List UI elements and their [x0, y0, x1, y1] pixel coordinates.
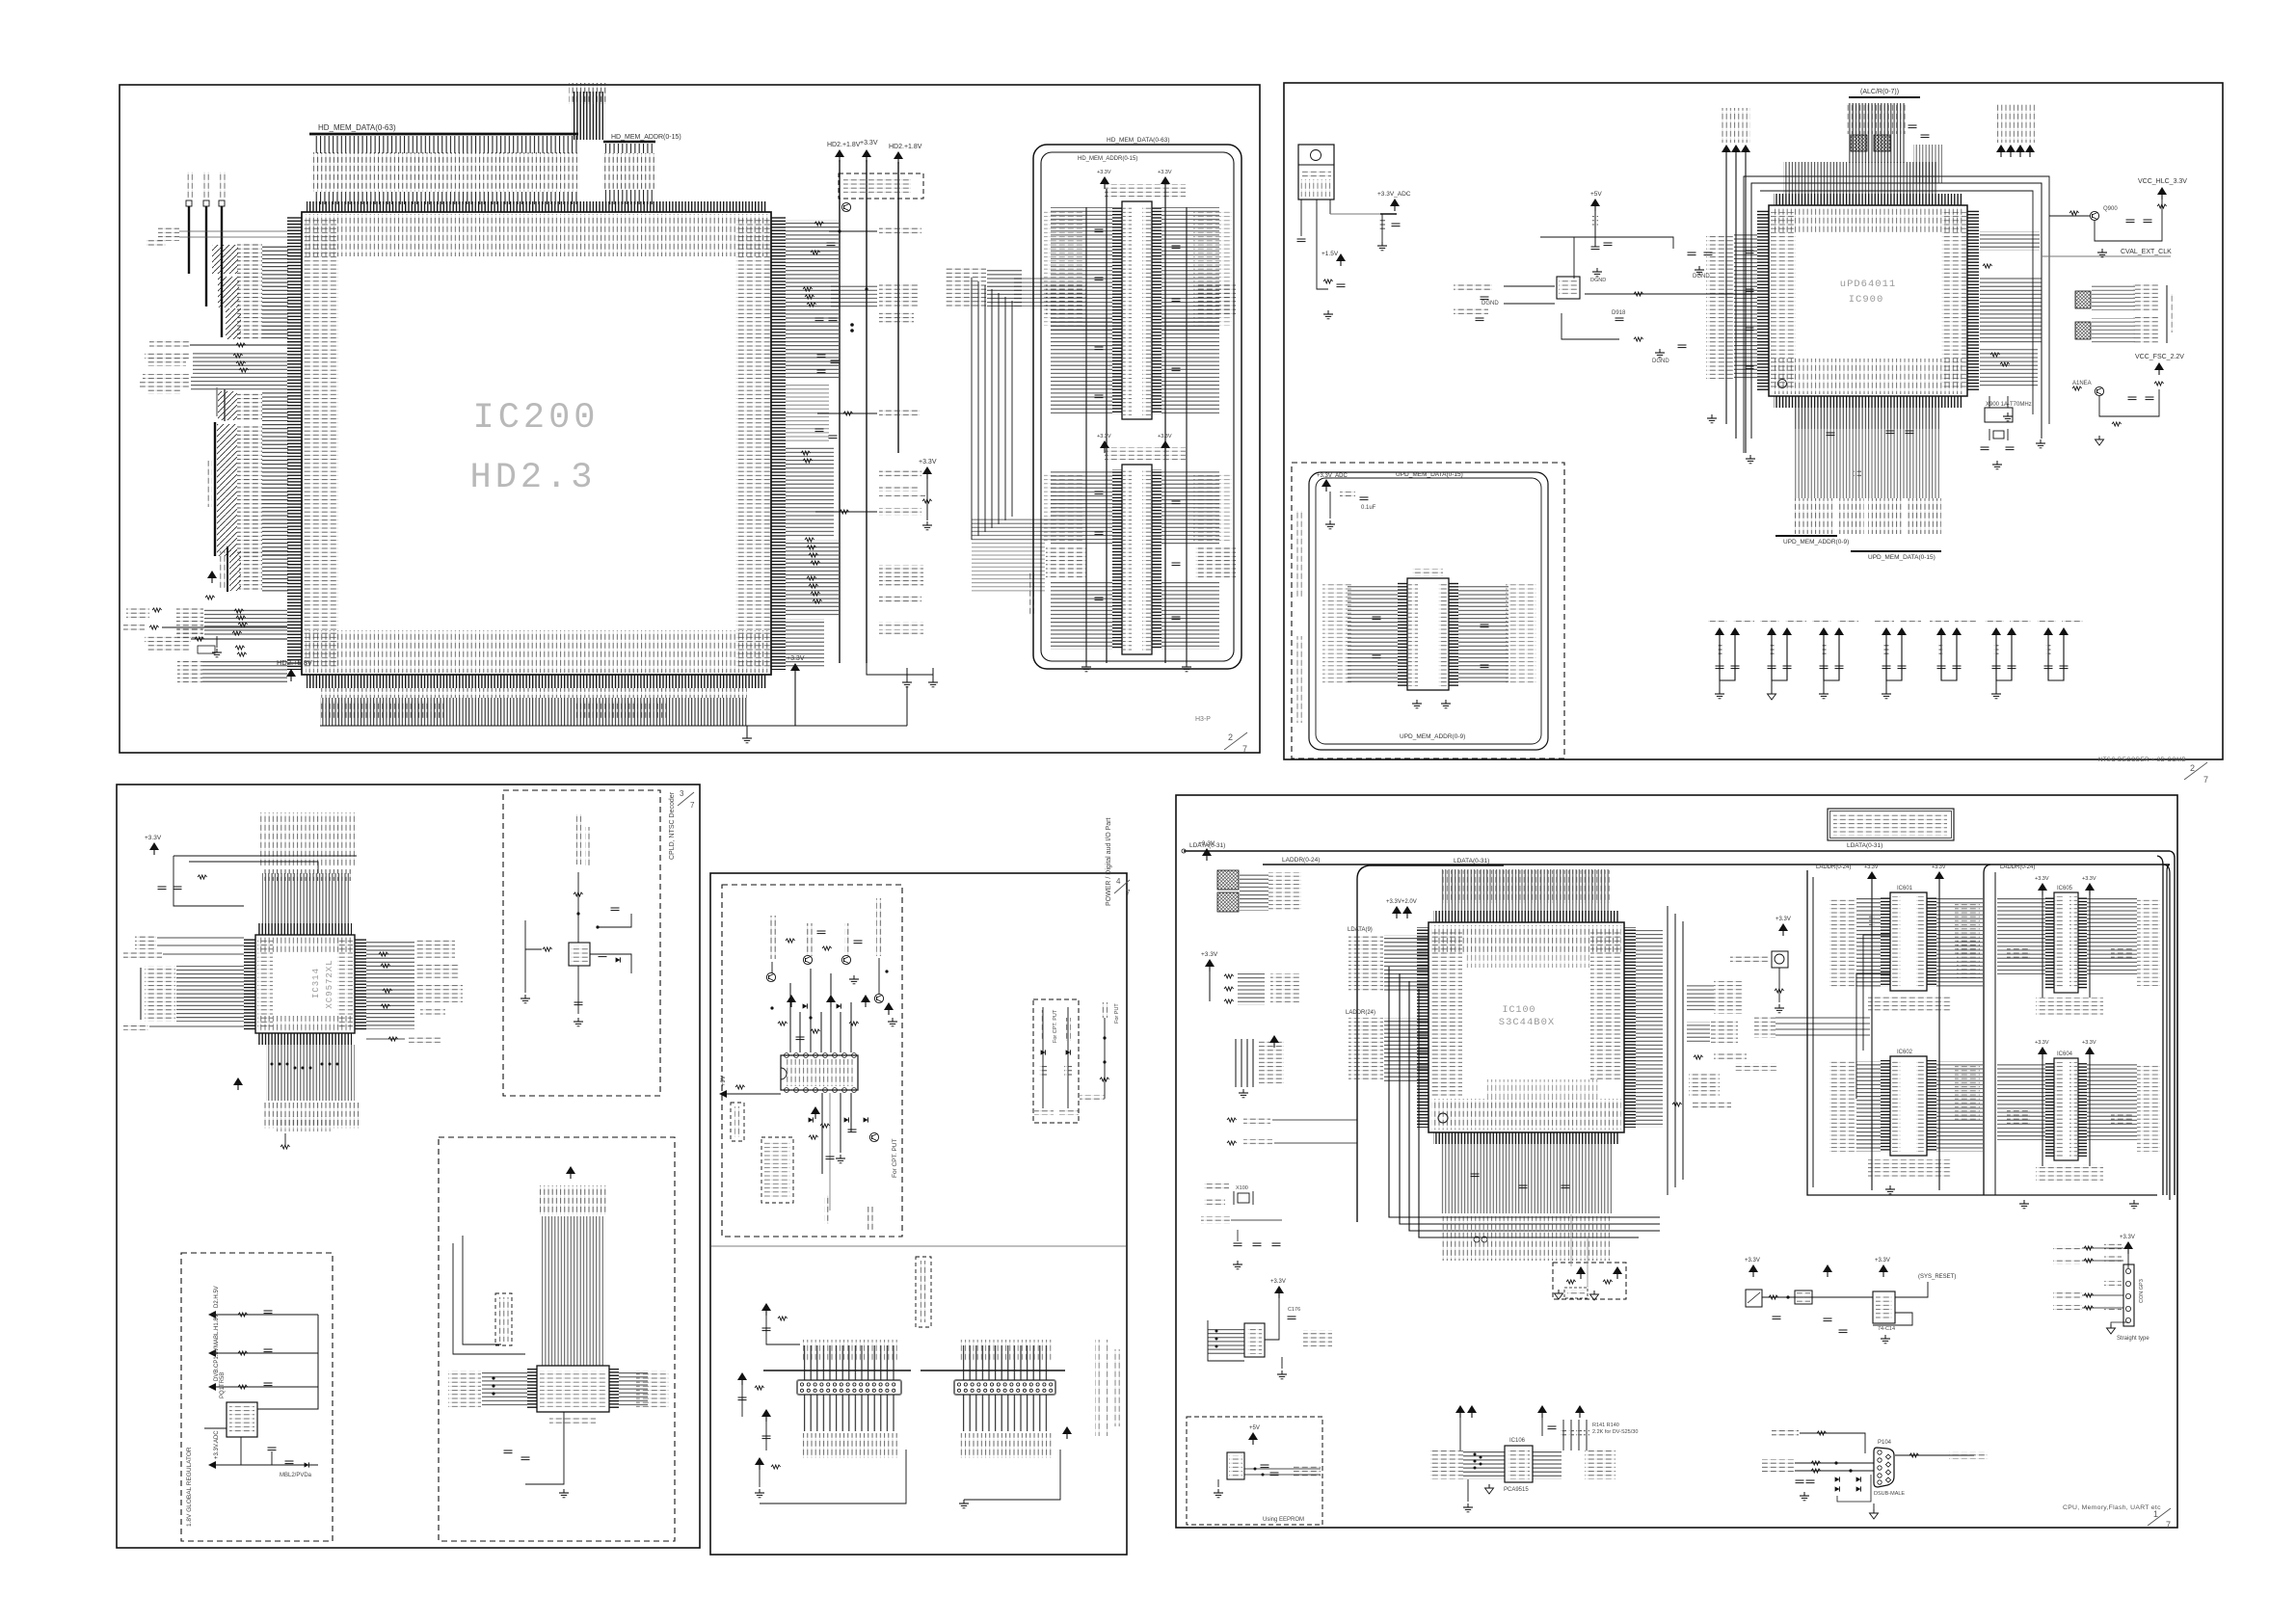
- dashed box right (CPT options): [1033, 999, 1079, 1123]
- vertical net label above small IC a: [574, 814, 581, 865]
- IC901 pin stubs left: [1398, 582, 1407, 686]
- wire bottom collector: [320, 725, 907, 727]
- label PLLCAP: [1204, 1184, 1229, 1191]
- label boxes IC605 left gnd/we: [2007, 946, 2030, 960]
- power cluster c1 arrow: [761, 1303, 771, 1316]
- power group 4 arrows: [1882, 627, 1891, 640]
- CN302 pin circles two rows: [957, 1383, 1052, 1386]
- extra label strip below: [275, 1116, 333, 1131]
- wire dsub ground: [1873, 1503, 1875, 1513]
- IC100 inner names top ragged: [1431, 925, 1621, 954]
- svg-text:0.1uF: 0.1uF: [1361, 505, 1376, 511]
- pin band below IC200 with labels: [320, 688, 747, 698]
- big dashed box RGB amp: [722, 885, 902, 1237]
- svg-text:HD_MEM_ADDR(0-15): HD_MEM_ADDR(0-15): [1078, 156, 1137, 162]
- wires IC202 left rows: [1051, 207, 1112, 333]
- wires right rows mid: [1980, 278, 2042, 345]
- diode right d: [305, 1462, 309, 1467]
- wires chip-top to ring: [1783, 162, 1937, 194]
- bracket left bus: [140, 968, 142, 1020]
- IC200 pin stubs left: [287, 217, 302, 670]
- panel border P3: [117, 785, 700, 1548]
- junction dot pair: [850, 323, 854, 327]
- power arrow below amp: [811, 1106, 820, 1119]
- wires left rows lower: [1384, 1018, 1428, 1081]
- svg-text:UPD_MEM_ADDR(0-9): UPD_MEM_ADDR(0-9): [1783, 539, 1849, 545]
- svg-text:2.2K for DV-S25/30: 2.2K for DV-S25/30: [1592, 1429, 1638, 1435]
- ground 1.5v cluster: [1323, 310, 1333, 319]
- routing ring mid: [1744, 176, 2049, 453]
- wires IC605 right: [2087, 897, 2137, 974]
- regulator pins down: [1300, 200, 1302, 236]
- wires IC602 right: [1936, 1061, 1983, 1152]
- IC pin circles bottom row: [785, 1088, 789, 1093]
- label CXL_TD cluster: [1243, 1116, 1270, 1124]
- wire up from small IC: [577, 872, 579, 943]
- IC314 pin stubs right: [355, 938, 366, 1030]
- svg-text:HD2.+1.8V: HD2.+1.8V: [827, 142, 861, 148]
- IC inner vertical text: [785, 1059, 854, 1086]
- wires up from amp pins: [789, 983, 791, 1052]
- power arrow P5 top-left: [1202, 848, 1212, 861]
- svg-text:UPD_MEM_DATA(0-15): UPD_MEM_DATA(0-15): [1868, 554, 1936, 561]
- caps below uart: [504, 1450, 513, 1453]
- svg-text:Using EEPROM: Using EEPROM: [1263, 1517, 1304, 1523]
- svg-text:+3.3V: +3.3V: [919, 459, 937, 466]
- resistor fan lower (WW stack): [805, 538, 814, 542]
- nested routing loop 3: [1409, 981, 1660, 1231]
- label HDB_EXT_CLK: [149, 341, 190, 349]
- wire right lower to label: [366, 1038, 405, 1040]
- label stack right group2: [1711, 1020, 1738, 1045]
- power arrow VCC_FSC: [2154, 362, 2164, 375]
- power group 4 resistor vertical: [1884, 644, 1889, 654]
- ground jumper: [2107, 1324, 2116, 1334]
- IC602 part text below: [1868, 1159, 1951, 1178]
- transistor Q501: [841, 202, 850, 211]
- wire CKH_AT2CLK with resistor: [817, 412, 877, 414]
- cap bus right vertical: [1186, 207, 1188, 663]
- power arrow IC107: [1274, 1286, 1284, 1298]
- CN302 wires up: [958, 1345, 1052, 1380]
- cap adc b: [1392, 224, 1401, 226]
- ground below IC901 right: [1441, 700, 1451, 708]
- wire fan lower part: [313, 192, 577, 204]
- wires IC604 right: [2087, 1063, 2137, 1140]
- label stack HA_DAC: [879, 565, 923, 586]
- diagonal fan LADDR: [229, 549, 241, 591]
- power group 2 cap a: [1768, 666, 1776, 669]
- bus label column left: [145, 966, 175, 1022]
- bypass caps column IC202: [1095, 229, 1104, 232]
- wire CN3A: [1800, 1433, 1865, 1453]
- svg-text:VCC_FSC_2.2V: VCC_FSC_2.2V: [2135, 354, 2184, 360]
- wires into option box: [1570, 1214, 1572, 1266]
- resistor CN3A: [1817, 1431, 1827, 1435]
- svg-text:(ALC/R(0-7)): (ALC/R(0-7)): [1860, 89, 1899, 95]
- flash down switch body: [1772, 951, 1788, 968]
- wire reg pin3 to adc cluster: [1330, 213, 1382, 215]
- svg-text:PQ1TR5B: PQ1TR5B: [220, 1372, 226, 1398]
- power group 6 cap a: [1992, 666, 2001, 669]
- resistor cluster r2: [811, 251, 820, 254]
- label stack right of chip 3: [416, 985, 463, 1002]
- 74C14 inner: [1876, 1294, 1892, 1320]
- svg-text:UPD_MEM_ADDR(0-9): UPD_MEM_ADDR(0-9): [1400, 733, 1465, 740]
- table inner rows: [764, 1141, 790, 1199]
- svg-text:HD_MEM_DATA(0-63): HD_MEM_DATA(0-63): [318, 123, 396, 132]
- wires TFVD rows: [262, 392, 288, 421]
- vertical label CH3_B_OUT: [876, 898, 883, 956]
- power group 4 labels: [1875, 619, 1894, 624]
- svg-text:IC604: IC604: [2057, 1051, 2073, 1057]
- cap top right in box: [611, 908, 620, 911]
- junction dots amp: [770, 1006, 773, 1009]
- nested routing loop 1: [1389, 967, 1660, 1217]
- resistor pack P5 top-left crosshatch 1: [1217, 870, 1239, 890]
- memory left bus vertical b: [1812, 877, 1814, 1187]
- resistor stack TDO: [232, 631, 242, 635]
- CN302 wires down: [958, 1395, 1052, 1431]
- vertical label band group1: [1793, 498, 1835, 534]
- power group 5 cap a: [1937, 666, 1946, 669]
- net labels vertical above: [258, 812, 355, 866]
- IC200 inner pin-name band top: [306, 214, 768, 256]
- svg-text:1: 1: [2153, 1509, 2158, 1519]
- IC604 pin stubs left: [2045, 1062, 2054, 1157]
- labels IC106 right: [1585, 1450, 1615, 1479]
- wire VD_SB to chip: [179, 236, 287, 238]
- power group 4 cap a: [1882, 666, 1891, 669]
- routing ring outer: [1751, 183, 2042, 439]
- wires right of IC314: [366, 941, 414, 1029]
- label column uart right: [636, 1370, 669, 1407]
- svg-text:IC200: IC200: [472, 398, 599, 439]
- wires IC901 right rows: [1458, 584, 1508, 684]
- wires uart up: [542, 1216, 605, 1366]
- power arrow IC605 left: [2038, 883, 2047, 895]
- label stack right 1: [2133, 283, 2158, 310]
- power arrow +3.3V_ADC in box: [1322, 479, 1331, 492]
- dsub label CN3A-CE: [1772, 1429, 1799, 1437]
- label L_DFLD: [123, 625, 145, 631]
- sram IC604 body: [2054, 1058, 2078, 1160]
- svg-text:+3.3V: +3.3V: [1158, 434, 1172, 439]
- power rail HD2_+1.8V vertical: [839, 160, 841, 663]
- power group 6 ground wire: [1995, 680, 1997, 690]
- svg-text:+3.3V: +3.3V: [1270, 1279, 1286, 1285]
- IC901 inner names right: [1438, 582, 1448, 686]
- ground cap bus left: [1081, 663, 1091, 672]
- svg-text:7: 7: [1126, 889, 1131, 897]
- connector P104 DSUB-9 body: [1874, 1448, 1894, 1487]
- wire fan from addr bus to IC200 top: [604, 144, 654, 153]
- wire +5v down: [1594, 210, 1596, 247]
- svg-text:+3.3V: +3.3V: [1775, 917, 1791, 922]
- label box HD2_VW_CLK: [879, 227, 921, 235]
- vertical bus LADDR stack: [1235, 1039, 1237, 1087]
- P104 pins col1: [1878, 1450, 1882, 1454]
- rounded bus loop top left: [1357, 865, 1369, 1222]
- cap x900 a: [1981, 447, 1989, 450]
- svg-text:+3.3V: +3.3V: [2082, 1040, 2096, 1046]
- label PVL2RE5T: [1714, 1053, 1747, 1061]
- power rail IC202 right: [1164, 189, 1166, 663]
- reset circuit: watchdog IC body: [1746, 1290, 1762, 1307]
- power group 6 wires: [1996, 640, 2012, 680]
- wires x900 up to chip: [1989, 396, 1990, 408]
- wire right of small IC: [590, 954, 631, 973]
- transistor Q4 right: [874, 994, 883, 1002]
- caps sprinkled left of chip: [1746, 251, 1754, 253]
- cap reset a: [1773, 1317, 1781, 1319]
- IC100 pin stubs bottom: [1433, 1132, 1619, 1144]
- power group 5 arrows: [1936, 627, 1946, 640]
- resistor: [237, 652, 247, 656]
- resistor adc vertical: [1379, 220, 1385, 231]
- wires SYTB: [157, 937, 244, 939]
- dram IC203 body: [1122, 465, 1152, 654]
- power arrow IC604 left: [2038, 1047, 2047, 1059]
- IC200 pin stubs top: [307, 201, 767, 212]
- CN301 pin circles two rows: [800, 1383, 894, 1386]
- power arrow reset b: [1823, 1264, 1832, 1277]
- grounds IC106: [1463, 1503, 1473, 1512]
- svg-text:LDATA(0-31): LDATA(0-31): [1454, 858, 1489, 865]
- wires IC202 lower rows: [1051, 318, 1112, 414]
- power group 5 cap b: [1953, 666, 1962, 669]
- labels DTL group: [1754, 1015, 1775, 1038]
- wire L_DFLD long: [162, 626, 287, 628]
- wire up CH3OUT: [771, 962, 773, 973]
- svg-text:HD_MEM_ADDR(0-15): HD_MEM_ADDR(0-15): [611, 134, 681, 141]
- i2c buffer IC106 body: [1505, 1446, 1533, 1482]
- labels texture above IC100: [1441, 870, 1610, 903]
- resistor cluster r1: [814, 222, 824, 226]
- +9V arrow left-point: [719, 1090, 727, 1098]
- cap below small IC: [574, 1002, 583, 1005]
- ground lower path: [1655, 349, 1665, 358]
- dram IC202 body: [1122, 201, 1152, 419]
- wire +9V to IC: [727, 1093, 781, 1095]
- label HA_DAC_LRCK2: [879, 596, 921, 603]
- label GND/WE right IC604: [2111, 1112, 2132, 1124]
- CN301 labels above: [801, 1340, 897, 1361]
- wire top in box: [1329, 492, 1331, 519]
- cap IC106: [1548, 1426, 1557, 1429]
- ground below chip b: [1746, 455, 1755, 464]
- label column HC_WCP group: [176, 607, 203, 636]
- resistor into chip: [1634, 292, 1643, 296]
- wire 1.5v cluster: [1317, 272, 1328, 289]
- power group 1 arrows: [1715, 627, 1724, 640]
- power group 2 labels: [1760, 619, 1779, 624]
- power group 7 cap b: [2060, 666, 2069, 669]
- svg-text:+3.3V: +3.3V: [1864, 865, 1879, 870]
- power group 7 wires: [2048, 640, 2064, 680]
- IC900 body: [1769, 205, 1967, 396]
- resistors jumper rows: [2084, 1246, 2094, 1250]
- wire bottom ground stub: [746, 726, 748, 734]
- resistor far right: [1100, 1078, 1109, 1081]
- label column uart left: [448, 1370, 481, 1407]
- label BTLD_TXD rows: [2053, 1245, 2082, 1252]
- wires below IC200 down: [320, 698, 747, 726]
- wire bottom rail: [794, 676, 796, 726]
- wires LADDR rows: [262, 549, 288, 592]
- resistor q900 top: [2157, 204, 2167, 208]
- regulator tab circle: [1311, 150, 1322, 161]
- label right single: [420, 1008, 445, 1016]
- chain 1 vertical label: [1040, 1010, 1046, 1039]
- vertical net label above small IC b: [585, 827, 592, 865]
- svg-text:uPD64011: uPD64011: [1840, 279, 1896, 290]
- jumper block CON GP3 body: [2123, 1264, 2134, 1326]
- cap +5v b: [1604, 243, 1613, 246]
- IC900 inner names top: [1772, 207, 1964, 232]
- single wire far right: [1104, 1018, 1106, 1099]
- dashed vertical label box left: [731, 1103, 744, 1141]
- label MH_LINE_LRCK: [879, 622, 923, 628]
- small caps row2: [817, 355, 826, 358]
- c2 resistor: [755, 1386, 764, 1390]
- power arrow left-point b: [208, 1349, 216, 1357]
- wire CVVAL_EXT_CLK long: [2042, 255, 2171, 257]
- label MS2_PWRATE: [1693, 1101, 1731, 1108]
- nested routing loop 2: [1400, 973, 1660, 1224]
- cap fsc b: [2146, 397, 2154, 400]
- cap main c: [1476, 318, 1484, 321]
- svg-text:D918: D918: [1612, 310, 1626, 316]
- c3 wire: [765, 1422, 767, 1450]
- wires right out of box: [1244, 1468, 1321, 1470]
- CN302 bus line above: [921, 1370, 1065, 1371]
- wires IC203 right rows: [1161, 470, 1219, 545]
- note text column right 3: [1114, 1349, 1120, 1426]
- svg-text:LADDR(0-24): LADDR(0-24): [1816, 865, 1851, 870]
- svg-text:+3.3V: +3.3V: [2035, 876, 2049, 882]
- wire bus LDATA vertical spine: [214, 422, 216, 556]
- routing loop left of uart b: [463, 1236, 501, 1344]
- resistor stack mid: [234, 609, 244, 613]
- diode pair wires: [1837, 1475, 1871, 1502]
- wires LDATA rows: [262, 424, 288, 556]
- vertical label CHA_G_OUT: [844, 923, 851, 956]
- IC602 pin stubs right: [1927, 1060, 1936, 1152]
- power group 1 wires: [1720, 640, 1735, 680]
- wire jumper gnd: [2111, 1322, 2128, 1324]
- U503 label block: [569, 83, 607, 104]
- small IC in dashed box: [569, 943, 590, 966]
- power group 1 ground: [1715, 690, 1724, 699]
- label HK_MAIN_RMW: [145, 352, 189, 359]
- video amp IC body: [781, 1055, 858, 1090]
- vol reg box: [1795, 1290, 1812, 1304]
- wire RxD0: [1795, 1462, 1874, 1464]
- resistor 1.5v cluster: [1323, 279, 1333, 283]
- wire +3.3V mid down: [926, 479, 928, 520]
- IC203 pin stubs left: [1112, 469, 1122, 650]
- wire below chip stub: [284, 1133, 286, 1145]
- label column TDO group: [177, 659, 202, 682]
- caps row in box: [1373, 617, 1381, 620]
- ground below amp: [836, 1155, 845, 1163]
- label boxes IC202 right: [1193, 210, 1232, 326]
- ground below chip a: [1707, 414, 1717, 423]
- power +3.3V_ADC arrow: [1390, 199, 1400, 211]
- wires above IC100: [1441, 869, 1610, 912]
- IC602 inner names: [1892, 1060, 1901, 1152]
- wire a: [216, 1314, 318, 1316]
- crystal X100 plates: [1233, 1191, 1235, 1205]
- addr fan lower part: [604, 190, 654, 204]
- transistor Q901: [2095, 386, 2103, 395]
- inverter 74C14 body: [1873, 1291, 1895, 1323]
- power group 3 wires: [1824, 640, 1839, 680]
- capacitor C510: [827, 243, 836, 246]
- power rail IC202 left: [1106, 189, 1108, 663]
- power rail HD2_+1.8V second vertical: [897, 162, 899, 453]
- IC900 pin stubs bottom: [1774, 396, 1962, 408]
- svg-text:IC314: IC314: [311, 968, 321, 998]
- resistor in option box b: [1603, 1280, 1613, 1284]
- c2 cap: [738, 1397, 747, 1400]
- resistor pack right crosshatch 1: [2075, 291, 2091, 308]
- power group 3 ground: [1819, 690, 1829, 699]
- label MAIN_C_IN: [1454, 306, 1488, 314]
- resistor: [235, 646, 245, 650]
- wire d: [216, 1464, 241, 1466]
- cap q900 a: [2126, 220, 2135, 223]
- vertical label band group3: [1868, 498, 1904, 534]
- IC200 inner pin-name band bottom: [306, 630, 768, 673]
- bypass caps column IC203: [1095, 492, 1104, 494]
- wire TxD0: [1795, 1470, 1874, 1472]
- resistor above small IC: [574, 892, 583, 896]
- routing verticals right of IC100: [1667, 906, 1669, 1195]
- small dashed box option mid: [1553, 1263, 1626, 1299]
- label XK_CPU: [126, 606, 149, 613]
- resistor R521: [236, 343, 246, 347]
- power group 3 resistor vertical: [1822, 644, 1827, 654]
- resistor rows CPU WAIT: [1224, 974, 1234, 978]
- power arrows in amp top: [787, 995, 796, 1007]
- c4 ground: [755, 1489, 764, 1498]
- svg-text:CON GP3: CON GP3: [2139, 1279, 2145, 1303]
- dashed box Using EEPROM: [1187, 1417, 1322, 1525]
- DIP switch table dashed: [761, 1137, 793, 1203]
- label boxes IC605 right: [2137, 899, 2160, 986]
- power arrow IC203 right +3.3V: [1161, 440, 1170, 453]
- wires TDO rows: [202, 659, 287, 682]
- resistor pair a: [238, 1313, 248, 1317]
- svg-text:+9V: +9V: [721, 1076, 727, 1086]
- cap d: [285, 1461, 294, 1464]
- svg-text:+3.3V: +3.3V: [1097, 434, 1111, 439]
- caps amp network: [817, 931, 826, 934]
- svg-text:C176: C176: [1288, 1307, 1300, 1313]
- IC604 inner names: [2055, 1062, 2063, 1157]
- IC100 pin stubs right: [1624, 927, 1636, 1128]
- small caps row1: [815, 318, 824, 321]
- label CKH_VDP_CLK: [879, 508, 921, 516]
- label SYTB0: [135, 935, 156, 942]
- svg-text:CPU, Memory,Flash, UART etc: CPU, Memory,Flash, UART etc: [2063, 1504, 2161, 1511]
- label PLL_PWRATESG: [879, 492, 925, 499]
- svg-text:+3.3V: +3.3V: [787, 655, 805, 662]
- wires IC106 right: [1533, 1450, 1562, 1479]
- resistor AYSE: [1227, 1141, 1237, 1145]
